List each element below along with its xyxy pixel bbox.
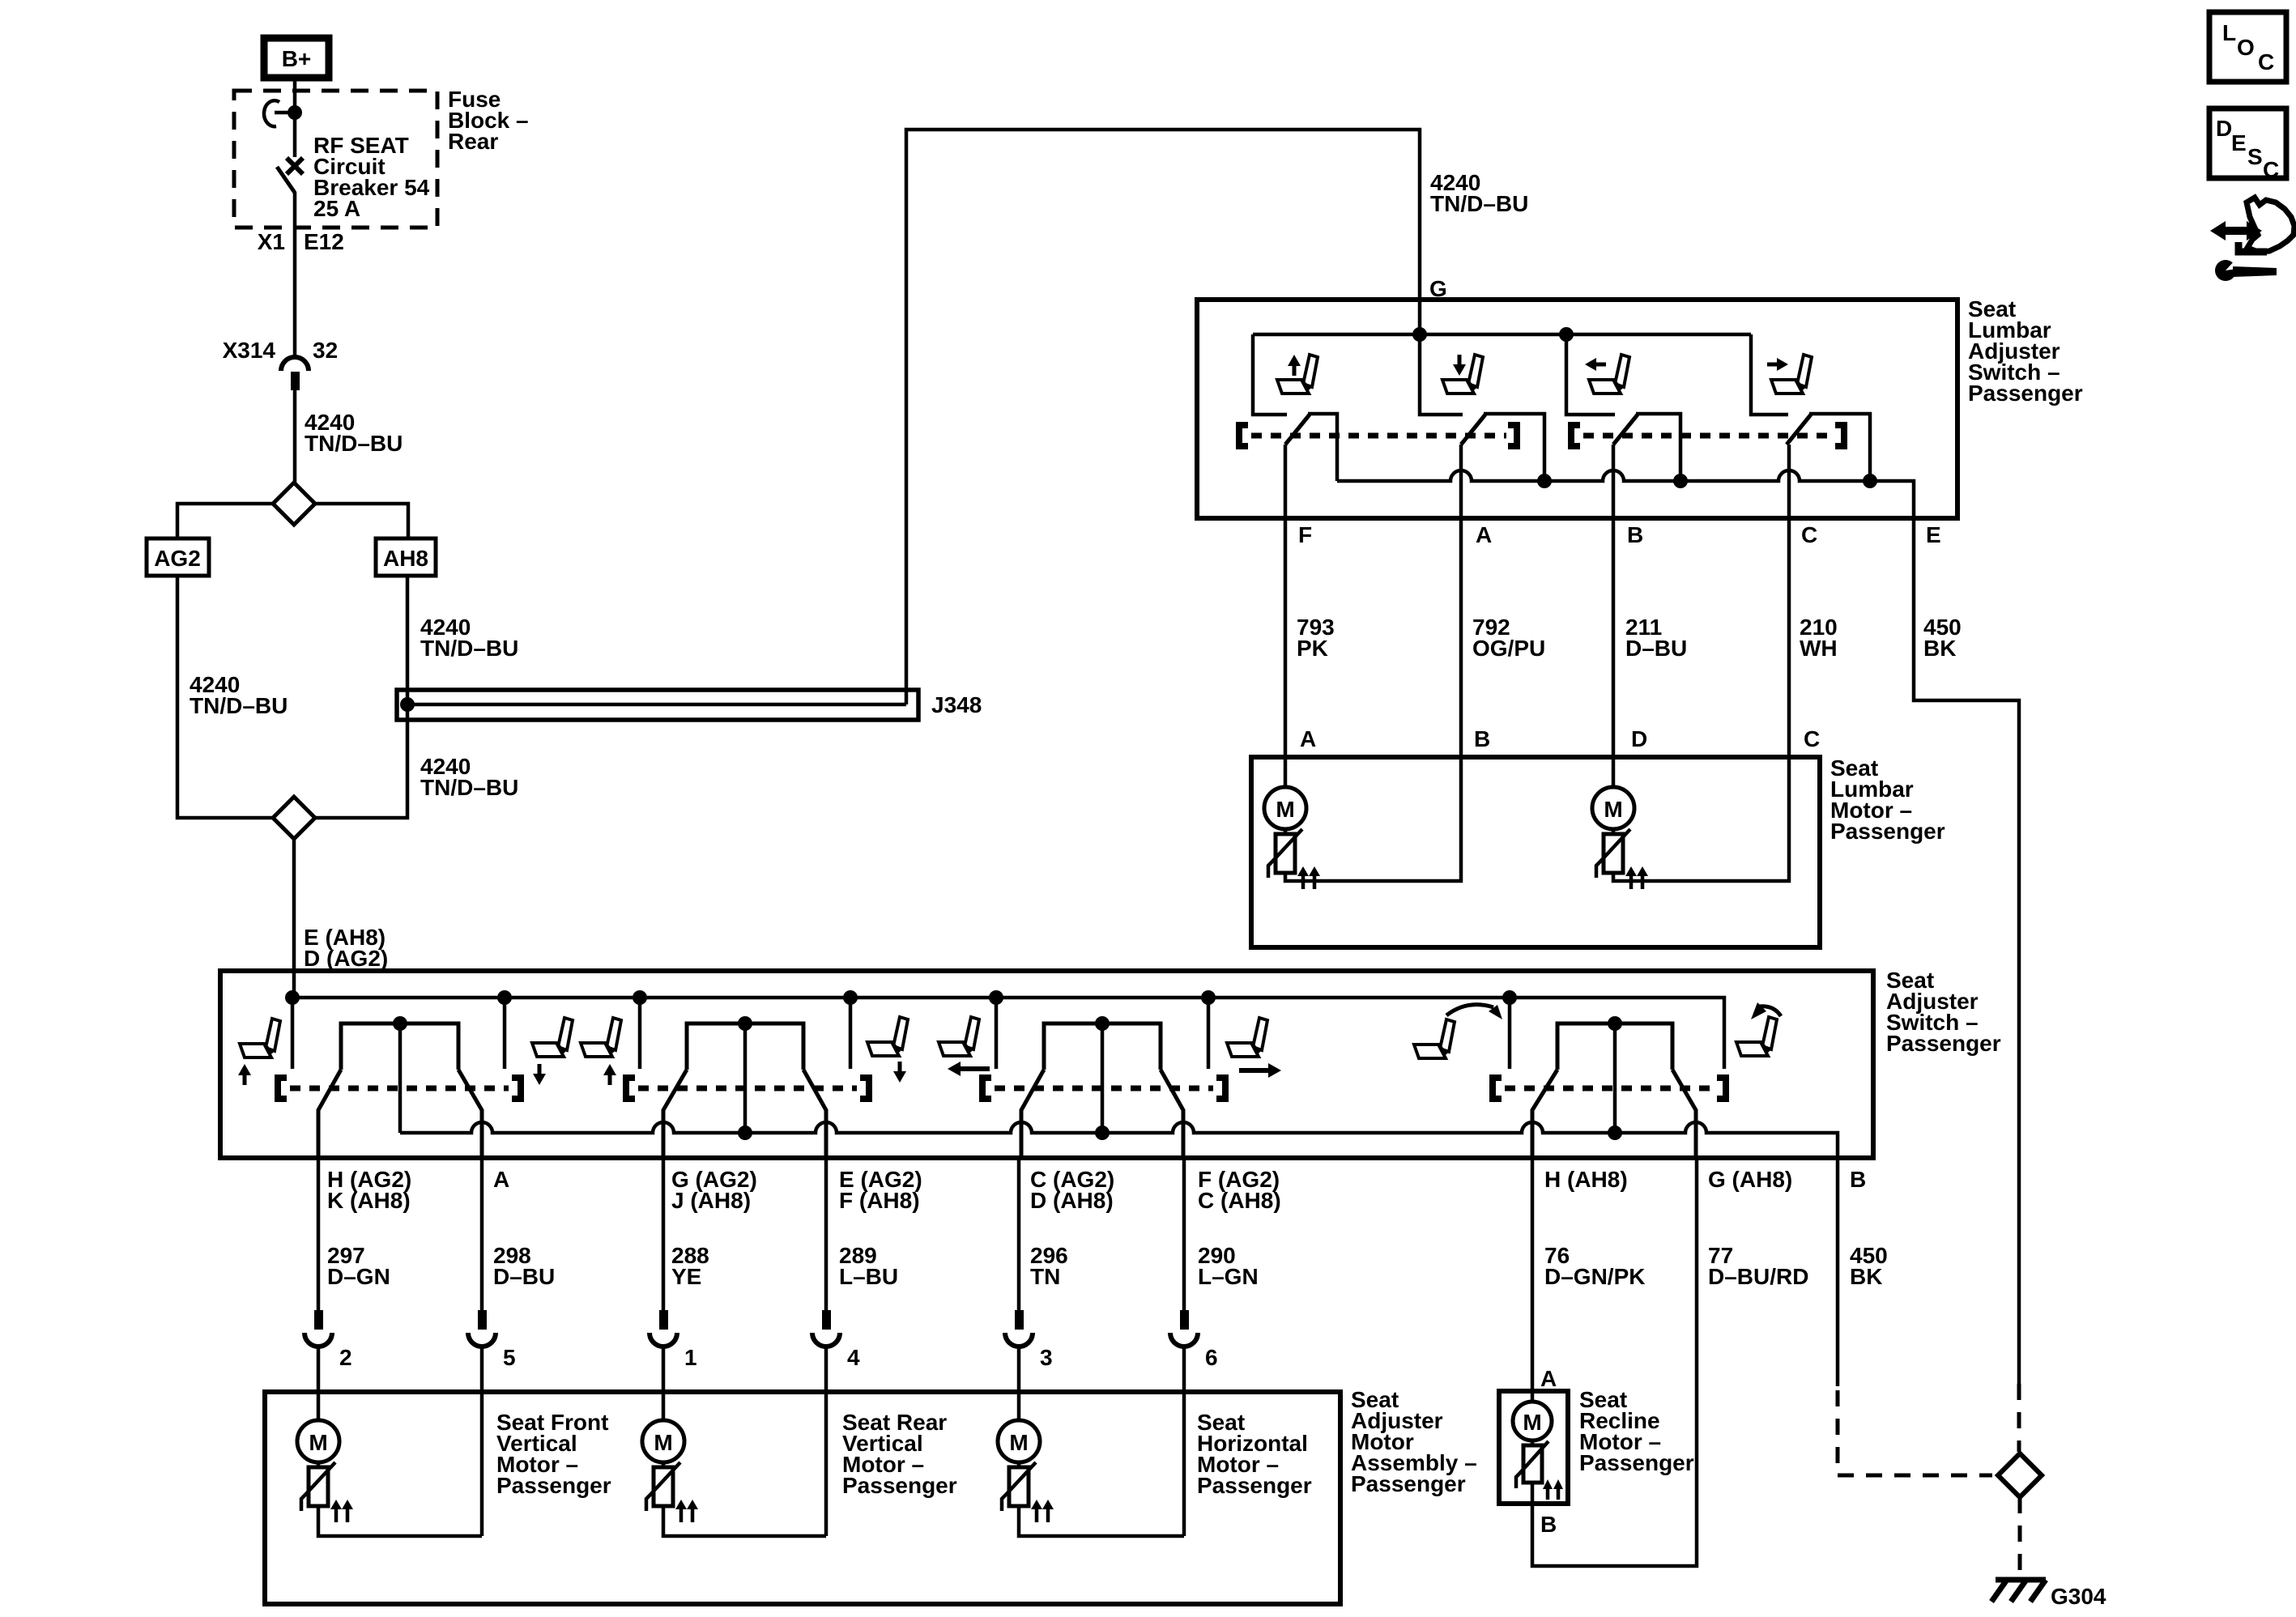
wire 296 to connector 3	[1017, 1158, 1021, 1310]
svg-text:C: C	[1801, 522, 1817, 547]
label wire 450 BK (switch E)	[1923, 615, 1962, 661]
connector AG2	[147, 538, 209, 576]
switch c1 blade left	[318, 1070, 341, 1158]
svg-text:TN/D–BU: TN/D–BU	[420, 636, 518, 661]
wire pin D to lumbar motor 2	[1612, 757, 1616, 787]
junction dot bus at G	[1412, 327, 1427, 342]
label pins E (AH8) D (AG2)	[304, 925, 388, 971]
seat lumbar adjuster switch box	[1197, 300, 1957, 518]
pin C lumbar motor	[1804, 726, 1820, 751]
LOC reference box	[2209, 12, 2286, 82]
label wire 450 BK (ground)	[1850, 1243, 1888, 1289]
svg-text:Passenger: Passenger	[1197, 1473, 1312, 1498]
icon seat recline forward	[1736, 1002, 1781, 1056]
label wire 4240 TN/D-BU (upper)	[305, 410, 403, 456]
pin B lumbar motor	[1474, 726, 1490, 751]
svg-text:H (AH8): H (AH8)	[1544, 1167, 1628, 1192]
switch c2 center link	[743, 1023, 748, 1133]
pin F	[1298, 522, 1312, 547]
junction dot bus c1 right	[497, 990, 512, 1005]
svg-text:C: C	[2258, 49, 2274, 74]
icon seat rear up	[581, 1018, 621, 1085]
svg-text:F (AH8): F (AH8)	[839, 1188, 920, 1213]
label pin 2	[339, 1345, 352, 1370]
svg-text:E: E	[1926, 522, 1941, 547]
contact bracket c1 left	[278, 1078, 287, 1099]
contact dashed line c1	[290, 1086, 509, 1091]
wire 290 to connector 6	[1182, 1158, 1186, 1310]
battery feed B+ terminal	[264, 38, 329, 78]
lumbar output rail with hops	[1337, 470, 1914, 518]
svg-text:AH8: AH8	[383, 546, 428, 571]
svg-text:TN/D–BU: TN/D–BU	[1430, 191, 1528, 216]
junction dot rail at B arm	[1673, 474, 1688, 488]
icon seat rearward	[939, 1017, 990, 1076]
svg-text:Passenger: Passenger	[1830, 819, 1945, 844]
switch c2 blade left	[663, 1070, 687, 1158]
junction dot at breaker top	[288, 105, 302, 120]
wire 450 BK solid segment	[1836, 1158, 1840, 1386]
label pins G(AG2) J(AH8)	[671, 1167, 757, 1213]
svg-text:X1: X1	[258, 229, 285, 254]
icon seat front up	[238, 1019, 280, 1085]
svg-text:B+: B+	[282, 46, 312, 71]
lumbar icon seat forward	[1585, 355, 1629, 394]
label pin B adjuster	[1850, 1167, 1866, 1192]
svg-text:B: B	[1627, 522, 1643, 547]
switch c1 carriage	[341, 1023, 458, 1070]
adjuster output rail with hops	[400, 1122, 1838, 1158]
label pin A adjuster	[493, 1167, 509, 1192]
seat adjuster motor assembly box	[265, 1392, 1340, 1604]
svg-text:1: 1	[684, 1345, 697, 1370]
svg-text:BK: BK	[1923, 636, 1956, 661]
seat lumbar motor box	[1251, 757, 1820, 947]
wire lumbar motor 2 loop to pin C	[1613, 757, 1789, 881]
wire 76 to recline motor	[1531, 1158, 1535, 1402]
svg-text:D–GN/PK: D–GN/PK	[1544, 1264, 1645, 1289]
contact bracket c3 right	[1216, 1078, 1225, 1099]
junction dot bus c4 left	[1502, 990, 1517, 1005]
wire horizontal motor loop	[1019, 1506, 1184, 1536]
connector pin 1	[650, 1310, 677, 1347]
switch c4 blade right	[1672, 1070, 1696, 1158]
label Seat Recline Motor - Passenger	[1579, 1387, 1694, 1475]
svg-text:Passenger: Passenger	[496, 1473, 611, 1498]
junction dot in J348	[400, 697, 415, 712]
svg-text:B: B	[1850, 1167, 1866, 1192]
label pins H(AG2) K(AH8)	[327, 1167, 411, 1213]
svg-text:4: 4	[847, 1345, 860, 1370]
switch c1 center link	[398, 1023, 403, 1133]
wire 288 to connector 1	[662, 1158, 666, 1310]
stationary contact c2 left	[638, 998, 642, 1069]
svg-text:E12: E12	[304, 229, 344, 254]
label X314	[223, 338, 276, 363]
contact bracket c3 left	[982, 1078, 991, 1099]
svg-text:D–GN: D–GN	[327, 1264, 390, 1289]
junction dot c2 rail	[738, 1126, 752, 1140]
stationary contact c1 left	[291, 998, 295, 1069]
junction dot c4 rail	[1608, 1126, 1622, 1140]
label wire 210 WH	[1800, 615, 1838, 661]
svg-text:L: L	[2222, 20, 2236, 45]
ground G304	[1991, 1580, 2046, 1602]
svg-text:A: A	[1300, 726, 1316, 751]
switch C common wire	[1751, 334, 1788, 415]
connector pin 6	[1170, 1310, 1198, 1347]
breaker switch blade	[277, 167, 295, 193]
label Seat Rear Vertical Motor - Passenger	[842, 1410, 957, 1498]
icon seat recline back	[1414, 1005, 1502, 1058]
svg-text:J348: J348	[931, 692, 982, 717]
wire lumbar motor 1 loop to pin B	[1285, 757, 1461, 881]
lumbar switch feed bus	[1253, 333, 1751, 337]
wire connector 6 into motor box	[1182, 1347, 1186, 1536]
fuse block dashed outline	[234, 91, 437, 228]
stationary contact c2 right	[849, 998, 853, 1069]
stationary contact c1 right	[503, 998, 507, 1069]
wire rear vertical motor loop	[663, 1506, 826, 1536]
pin G	[1429, 276, 1447, 301]
junction dot c3 carriage	[1095, 1016, 1110, 1031]
wire pin A to lumbar motor 1	[1284, 757, 1288, 787]
svg-text:A: A	[1476, 522, 1492, 547]
switch c3 center link	[1101, 1023, 1105, 1133]
connector AH8	[376, 538, 436, 576]
lumbar motor 1	[1264, 787, 1320, 889]
switch F throw arm	[1308, 414, 1337, 481]
wire splice to ground dashed	[2018, 1497, 2022, 1579]
pin X1	[258, 229, 285, 254]
wire F output	[1284, 445, 1288, 757]
lumbar icon seat up	[1277, 355, 1318, 394]
junction dot c4 carriage	[1608, 1016, 1622, 1031]
svg-text:G304: G304	[2051, 1584, 2106, 1609]
connector pin 3	[1005, 1310, 1033, 1347]
seat rear vertical motor	[642, 1420, 698, 1522]
svg-text:Passenger: Passenger	[1886, 1031, 2001, 1056]
junction dot bus c3 right	[1201, 990, 1216, 1005]
junction dot c1 carriage	[393, 1016, 407, 1031]
svg-text:D–BU: D–BU	[493, 1264, 555, 1289]
label pin 6	[1205, 1345, 1218, 1370]
svg-text:TN/D–BU: TN/D–BU	[420, 775, 518, 800]
stationary contact c3 right	[1207, 998, 1211, 1069]
svg-text:D–BU/RD: D–BU/RD	[1708, 1264, 1808, 1289]
contact dashed line c4	[1505, 1086, 1714, 1091]
svg-text:F: F	[1298, 522, 1312, 547]
wire 450 BK dashed to splice	[1838, 1390, 1992, 1475]
svg-text:TN/D–BU: TN/D–BU	[305, 431, 403, 456]
contact bracket c2 left	[626, 1078, 635, 1099]
svg-text:Passenger: Passenger	[1351, 1471, 1466, 1496]
label wire 77 D-BU/RD	[1708, 1243, 1808, 1289]
svg-text:A: A	[493, 1167, 509, 1192]
svg-text:TN: TN	[1030, 1264, 1060, 1289]
label RF SEAT Circuit Breaker 54 25 A	[313, 133, 430, 221]
breaker thermal X mark	[287, 158, 303, 174]
splice diamond ground	[1998, 1453, 2042, 1497]
junction dot rail at C arm	[1863, 474, 1877, 488]
label wire 297 D-GN	[327, 1243, 390, 1289]
switch c4 carriage	[1557, 1023, 1672, 1070]
lumbar contact bracket right 1	[1508, 425, 1517, 446]
adjuster switch feed bus	[292, 998, 1724, 1069]
label Seat Front Vertical Motor - Passenger	[496, 1410, 611, 1498]
label Seat Adjuster Motor Assembly - Passenger	[1351, 1387, 1477, 1496]
stationary contact c3 left	[995, 998, 999, 1069]
switch A blade	[1461, 415, 1485, 445]
svg-text:Passenger: Passenger	[1579, 1450, 1694, 1475]
junction dot bus c3 left	[989, 990, 1003, 1005]
seat recline motor	[1513, 1402, 1563, 1500]
splice diamond upper	[273, 483, 315, 525]
junction dot c3 rail	[1095, 1126, 1110, 1140]
wire J348 riser to lumbar switch pin G	[906, 130, 1420, 704]
switch B throw arm	[1636, 414, 1680, 481]
lumbar icon seat rearward	[1767, 355, 1812, 394]
pin E12	[304, 229, 344, 254]
pin B recline motor	[1540, 1512, 1557, 1537]
label Seat Horizontal Motor - Passenger	[1197, 1410, 1312, 1498]
switch c4 center link	[1613, 1023, 1617, 1133]
switch c3 blade left	[1021, 1070, 1044, 1158]
label wire 4240 TN/D-BU (top run)	[1430, 170, 1528, 216]
connector pin 4	[812, 1310, 840, 1347]
connector pin 5	[468, 1310, 496, 1347]
switch c4 blade left	[1532, 1070, 1557, 1158]
icon seat forward	[1227, 1018, 1281, 1078]
svg-text:O: O	[2237, 35, 2255, 60]
wire C output	[1787, 445, 1791, 757]
switch C blade	[1787, 415, 1811, 445]
pin D lumbar motor	[1631, 726, 1647, 751]
wire B+ to fuse block	[293, 81, 297, 113]
label 32	[313, 338, 338, 363]
pin A	[1476, 522, 1492, 547]
switch c3 carriage	[1044, 1023, 1161, 1070]
pin E	[1926, 522, 1941, 547]
junction dot bus at B switch	[1559, 327, 1574, 342]
svg-text:YE: YE	[671, 1264, 701, 1289]
lumbar motor 2	[1592, 787, 1648, 889]
seat recline motor box	[1499, 1391, 1568, 1504]
label wire 4240 TN/D-BU (below J348)	[420, 754, 518, 800]
svg-text:G (AH8): G (AH8)	[1708, 1167, 1792, 1192]
svg-text:C: C	[1804, 726, 1820, 751]
wire B output	[1612, 445, 1616, 757]
label J348	[931, 692, 982, 717]
junction dot rail at A arm	[1537, 474, 1552, 488]
label Seat Lumbar Motor - Passenger	[1830, 755, 1945, 844]
label pin H(AH8)	[1544, 1167, 1628, 1192]
contact dashed line c2	[638, 1086, 857, 1091]
switch A common wire	[1420, 334, 1463, 415]
svg-text:D: D	[1631, 726, 1647, 751]
svg-text:AG2: AG2	[154, 546, 201, 571]
junction dot bus feed	[285, 990, 300, 1005]
svg-text:2: 2	[339, 1345, 352, 1370]
svg-text:J (AH8): J (AH8)	[671, 1188, 751, 1213]
svg-text:BK: BK	[1850, 1264, 1882, 1289]
label pin 3	[1040, 1345, 1053, 1370]
label wire 4240 TN/D-BU (right of AH8)	[420, 615, 518, 661]
svg-text:OG/PU: OG/PU	[1472, 636, 1545, 661]
switch c1 blade right	[458, 1070, 482, 1158]
seat horizontal motor	[998, 1420, 1054, 1522]
switch F common wire	[1253, 334, 1287, 415]
svg-text:Passenger: Passenger	[1968, 381, 2083, 406]
label pins C(AG2) D(AH8)	[1030, 1167, 1114, 1213]
svg-text:B: B	[1474, 726, 1490, 751]
wire connector 4 into motor box	[824, 1347, 829, 1536]
label wire 289 L-BU	[839, 1243, 898, 1289]
svg-text:Passenger: Passenger	[842, 1473, 957, 1498]
wire front vertical motor loop	[318, 1506, 482, 1536]
pin B	[1627, 522, 1643, 547]
label wire 792 OG/PU	[1472, 615, 1545, 661]
splice pack J348	[397, 690, 918, 720]
label Seat Lumbar Adjuster Switch - Passenger	[1968, 296, 2083, 406]
label wire 288 YE	[671, 1243, 709, 1289]
wire breaker to connector X1/E12	[293, 192, 297, 357]
wire E dashed segment to splice	[2017, 1384, 2021, 1452]
svg-text:S: S	[2247, 144, 2263, 169]
pin C	[1801, 522, 1817, 547]
wire E ground run	[1914, 518, 2019, 1384]
wire 298 to connector 5	[480, 1158, 484, 1310]
svg-text:Rear: Rear	[448, 129, 498, 154]
pin A recline motor	[1540, 1366, 1557, 1391]
switch C throw arm	[1809, 414, 1870, 481]
label Seat Adjuster Switch - Passenger	[1886, 968, 2001, 1056]
junction dot bus c2 right	[843, 990, 858, 1005]
lumbar contact bracket left 1	[1239, 425, 1248, 446]
label pin 4	[847, 1345, 860, 1370]
label pins F(AG2) C(AH8)	[1198, 1167, 1281, 1213]
svg-text:D (AG2): D (AG2)	[304, 946, 388, 971]
svg-text:32: 32	[313, 338, 338, 363]
svg-text:E: E	[2231, 130, 2247, 155]
svg-text:C (AH8): C (AH8)	[1198, 1188, 1281, 1213]
contact dashed line c3	[995, 1086, 1213, 1091]
label wire 793 PK	[1297, 615, 1335, 661]
svg-text:PK: PK	[1297, 636, 1328, 661]
label wire 298 D-BU	[493, 1243, 555, 1289]
switch c3 blade right	[1161, 1070, 1183, 1158]
switch A throw arm	[1484, 414, 1544, 481]
svg-text:L–GN: L–GN	[1198, 1264, 1259, 1289]
contact bracket c2 right	[860, 1078, 869, 1099]
lumbar contact dashed line 1	[1251, 433, 1506, 439]
junction dot c2 carriage	[738, 1016, 752, 1031]
label wire 211 D-BU	[1625, 615, 1687, 661]
wire splice to AH8 branch	[315, 504, 408, 538]
icon seat rear down	[867, 1017, 908, 1083]
wire X314 to splice diamond	[293, 389, 297, 484]
icon seat front down	[532, 1018, 573, 1085]
lumbar contact bracket right 2	[1835, 425, 1844, 446]
lumbar icon seat down	[1442, 355, 1483, 394]
svg-text:25 A: 25 A	[313, 196, 360, 221]
wire AH8 through J348 to lower splice	[315, 576, 407, 818]
wire 297 to connector 2	[317, 1158, 321, 1310]
contact bracket c4 left	[1493, 1078, 1502, 1099]
svg-text:M: M	[1523, 1410, 1541, 1435]
svg-text:WH: WH	[1800, 636, 1838, 661]
wire connector 1 to motor box	[662, 1347, 666, 1420]
svg-text:L–BU: L–BU	[839, 1264, 898, 1289]
label Fuse Block - Rear	[448, 87, 529, 154]
svg-text:X314: X314	[223, 338, 276, 363]
label wire 4240 TN/D-BU (left)	[190, 672, 288, 718]
label wire 76 D-GN/PK	[1544, 1243, 1645, 1289]
contact bracket c4 right	[1717, 1078, 1726, 1099]
wire connector 3 to motor box	[1017, 1347, 1021, 1420]
switch B common wire	[1566, 334, 1615, 415]
diagnostic hand icon	[2210, 198, 2294, 281]
connector pin 2	[305, 1310, 332, 1347]
wire recline motor B loop to wire 77	[1532, 1158, 1697, 1566]
svg-text:A: A	[1540, 1366, 1557, 1391]
label pins E(AG2) F(AH8)	[839, 1167, 922, 1213]
seat front vertical motor	[297, 1420, 353, 1522]
stationary contact c4 left	[1508, 998, 1512, 1069]
wire 289 to connector 4	[824, 1158, 829, 1310]
wire A output	[1459, 445, 1463, 757]
seat adjuster switch box	[220, 971, 1873, 1158]
pin A lumbar motor	[1300, 726, 1316, 751]
wire connector 5 into motor box	[480, 1347, 484, 1536]
wire splice to AG2 branch	[177, 504, 273, 538]
label wire 296 TN	[1030, 1243, 1068, 1289]
svg-text:5: 5	[503, 1345, 516, 1370]
lumbar contact dashed line 2	[1583, 433, 1834, 439]
lumbar contact bracket left 2	[1571, 425, 1580, 446]
DESC reference box	[2209, 109, 2286, 182]
wire lower splice to seat adjuster switch	[292, 839, 296, 998]
label pin 5	[503, 1345, 516, 1370]
label G304	[2051, 1584, 2106, 1609]
svg-text:D: D	[2216, 116, 2232, 141]
switch c2 carriage	[687, 1023, 803, 1070]
contact bracket c1 right	[512, 1078, 521, 1099]
svg-text:6: 6	[1205, 1345, 1218, 1370]
svg-text:D–BU: D–BU	[1625, 636, 1687, 661]
label pin 1	[684, 1345, 697, 1370]
wire AG2 to lower splice	[177, 576, 273, 818]
circuit breaker hook element	[264, 100, 295, 126]
label pin G(AH8)	[1708, 1167, 1792, 1192]
wire breaker internal	[293, 113, 297, 157]
switch B blade	[1613, 415, 1638, 445]
switch c2 blade right	[803, 1070, 826, 1158]
switch F blade	[1285, 415, 1310, 445]
svg-text:D (AH8): D (AH8)	[1030, 1188, 1114, 1213]
svg-text:3: 3	[1040, 1345, 1053, 1370]
svg-text:C: C	[2263, 157, 2279, 182]
wire connector 2 to motor box	[317, 1347, 321, 1420]
junction dot bus c2 left	[633, 990, 647, 1005]
svg-text:B: B	[1540, 1512, 1557, 1537]
svg-text:TN/D–BU: TN/D–BU	[190, 693, 288, 718]
svg-text:K (AH8): K (AH8)	[327, 1188, 411, 1213]
connector X314 pin 32	[281, 357, 309, 390]
splice diamond lower	[273, 797, 315, 839]
label wire 290 L-GN	[1198, 1243, 1259, 1289]
